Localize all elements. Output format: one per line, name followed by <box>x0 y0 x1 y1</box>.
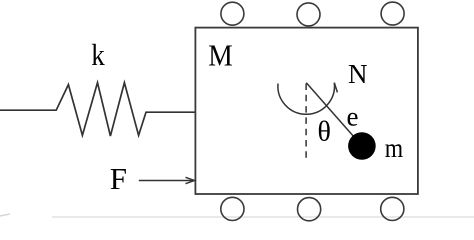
svg-text:θ: θ <box>318 117 331 148</box>
top wheel 1 <box>221 2 244 25</box>
bottom wheel 1 <box>221 197 244 220</box>
pendulum bob m <box>348 132 376 160</box>
rotation arrowhead <box>334 83 337 93</box>
svg-text:N: N <box>348 59 368 89</box>
bottom wheel 2 <box>298 198 321 221</box>
force arrow F head <box>186 177 195 183</box>
top wheel 2 <box>297 3 320 26</box>
rotation arc N (semicircle under pivot) <box>278 83 335 115</box>
svg-text:k: k <box>91 37 105 72</box>
svg-text:F: F <box>110 161 127 196</box>
bottom wheel 3 <box>381 197 404 220</box>
cart body M (box) <box>195 28 418 194</box>
svg-text:e: e <box>347 101 359 131</box>
faint smudge bottom-left <box>0 214 10 216</box>
pendulum rod e <box>306 83 362 146</box>
top wheel 3 <box>381 2 404 25</box>
spring k (zigzag + leads) <box>0 83 195 136</box>
force arrow F shaft <box>139 180 193 182</box>
svg-text:m: m <box>385 133 403 163</box>
svg-text:M: M <box>208 38 233 73</box>
pendulum pivot dashed vertical reference line <box>305 84 307 159</box>
faint scan line bottom <box>52 216 474 218</box>
